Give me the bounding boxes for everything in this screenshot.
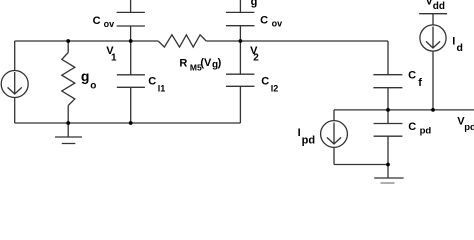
svg-text:C: C xyxy=(260,14,268,26)
svg-text:C: C xyxy=(93,15,101,27)
svg-text:dd: dd xyxy=(433,1,445,12)
svg-text:pd: pd xyxy=(464,122,474,133)
svg-text:C: C xyxy=(148,75,156,87)
svg-text:I: I xyxy=(298,127,301,139)
svg-text:l2: l2 xyxy=(271,83,279,93)
svg-text:ov: ov xyxy=(104,19,115,29)
svg-text:l1: l1 xyxy=(158,83,166,93)
svg-text:d: d xyxy=(457,42,463,54)
svg-text:): ) xyxy=(218,57,222,69)
svg-text:pd: pd xyxy=(302,134,315,146)
svg-text:R: R xyxy=(179,57,187,69)
svg-text:2: 2 xyxy=(253,53,259,64)
svg-text:pd: pd xyxy=(420,125,432,136)
svg-text:C: C xyxy=(261,75,269,87)
svg-text:1: 1 xyxy=(111,53,117,64)
svg-text:o: o xyxy=(90,81,96,92)
svg-text:g: g xyxy=(81,68,90,84)
svg-text:ov: ov xyxy=(272,19,283,29)
svg-text:g: g xyxy=(251,0,258,8)
svg-text:(V: (V xyxy=(200,57,212,69)
svg-text:C: C xyxy=(408,121,416,133)
svg-text:f: f xyxy=(418,77,422,89)
svg-text:C: C xyxy=(408,70,416,82)
svg-text:I: I xyxy=(452,35,455,47)
